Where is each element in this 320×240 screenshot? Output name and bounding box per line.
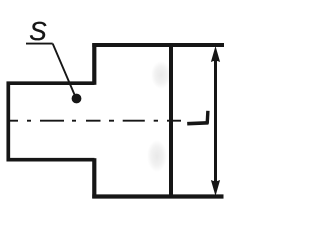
centerline dot 1 <box>27 120 31 122</box>
centerline dash 4 <box>123 120 145 122</box>
centerline dash 2 <box>40 120 64 122</box>
part outline: wide section top edge with extension line <box>92 43 224 47</box>
centerline dot 2 <box>72 120 76 122</box>
centerline dot 3 <box>109 120 114 122</box>
part outline: wide section right edge <box>169 43 173 198</box>
centerline dash 3 <box>86 120 101 122</box>
centerline dot 4 <box>154 120 158 122</box>
leader diagonal to surface dot <box>53 44 75 97</box>
leader shelf under label S <box>26 43 53 45</box>
part outline: upper step shoulder <box>92 43 96 85</box>
scan smudge upper <box>151 61 171 89</box>
leader terminal dot <box>72 94 82 104</box>
part outline: wide section bottom edge with extension line <box>92 194 223 198</box>
dimension arrowhead bottom <box>211 180 220 196</box>
centerline dash 1 <box>8 120 18 122</box>
dimension arrowhead top <box>211 46 220 62</box>
dimension line for L <box>214 58 217 184</box>
part outline: lower step shoulder <box>92 158 96 198</box>
centerline dash 5 crossing right edge <box>167 120 181 122</box>
part outline: narrow left section (top, left, bottom edges) <box>8 83 94 160</box>
label L (rotated 90deg CCW, drawn as strokes) <box>187 111 208 124</box>
scan smudge lower <box>147 140 167 172</box>
svg-text:S: S <box>29 16 47 46</box>
